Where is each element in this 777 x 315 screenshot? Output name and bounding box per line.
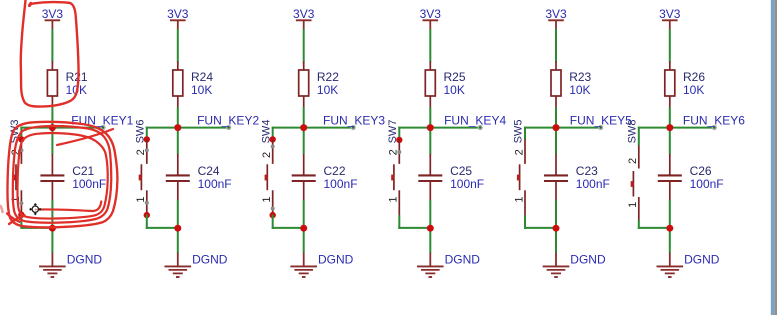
svg-text:100nF: 100nF	[72, 177, 106, 191]
net label FUN_KEY6 stub	[670, 127, 715, 129]
ground symbol DGND column 6	[657, 253, 720, 277]
wire R23 to node FUN_KEY5	[555, 107, 557, 154]
svg-text:SW6: SW6	[135, 120, 147, 144]
resistor R25 10K	[425, 62, 466, 108]
capacitor C21 100nF	[40, 154, 106, 201]
wire node to switch SW3 pin 2	[20, 127, 52, 129]
resistor R26 10K	[665, 62, 706, 108]
capacitor C25 100nF	[418, 154, 484, 201]
wire C21 to ground	[51, 200, 53, 253]
svg-text:FUN_KEY5: FUN_KEY5	[570, 113, 632, 127]
wire 3V3 to R25	[429, 29, 431, 63]
svg-text:100nF: 100nF	[576, 177, 610, 191]
wire C24 to ground	[177, 200, 179, 253]
svg-text:2: 2	[513, 149, 525, 155]
wire node to switch SW5 pin 2	[524, 127, 556, 129]
svg-text:2: 2	[135, 149, 147, 155]
capacitor C23 100nF	[544, 154, 610, 201]
svg-text:1: 1	[627, 202, 639, 208]
switch SW6	[139, 136, 150, 218]
wire 3V3 to R23	[555, 29, 557, 63]
svg-text:10K: 10K	[569, 83, 590, 97]
capacitor C24 100nF	[166, 154, 232, 201]
switch SW7	[391, 137, 402, 216]
junction node FUN_KEY3	[300, 124, 307, 131]
junction node FUN_KEY4	[427, 124, 434, 131]
svg-text:SW8: SW8	[627, 120, 639, 144]
svg-text:DGND: DGND	[192, 253, 228, 267]
svg-text:C25: C25	[450, 164, 472, 178]
svg-text:DGND: DGND	[445, 253, 481, 267]
wire R21 to node FUN_KEY1	[51, 107, 53, 154]
power port 3V3 column 4	[420, 7, 442, 30]
svg-text:DGND: DGND	[570, 253, 606, 267]
power port 3V3 column 6	[659, 7, 681, 30]
svg-text:100nF: 100nF	[198, 177, 232, 191]
wire 3V3 to R22	[303, 29, 305, 63]
svg-text:2: 2	[627, 158, 639, 164]
wire 3V3 to R21	[51, 29, 53, 63]
svg-text:R22: R22	[317, 70, 339, 84]
svg-text:R21: R21	[66, 70, 88, 84]
annotation scribble loops around SW3 and C21	[1, 122, 118, 227]
wire C22 to ground	[303, 200, 305, 253]
net label FUN_KEY4 stub	[430, 127, 480, 129]
junction ground node column 3	[300, 225, 307, 232]
wire 3V3 to R24	[177, 29, 179, 63]
junction ground node column 6	[666, 225, 673, 232]
wire R25 to node FUN_KEY4	[429, 107, 431, 154]
wire switch SW3 pin 1 to ground node	[20, 214, 22, 229]
junction node FUN_KEY2	[174, 124, 181, 131]
annotation scribble stroke from cursor	[39, 202, 102, 212]
ground symbol DGND column 3	[290, 253, 353, 277]
svg-text:10K: 10K	[191, 83, 212, 97]
annotation scribble loop around 3V3 and R21	[21, 0, 79, 107]
svg-text:C22: C22	[324, 164, 346, 178]
switch SW4	[265, 136, 276, 218]
svg-text:C26: C26	[690, 164, 712, 178]
svg-text:DGND: DGND	[318, 253, 354, 267]
capacitor C26 100nF	[658, 154, 724, 201]
svg-text:1: 1	[135, 196, 147, 202]
svg-text:DGND: DGND	[684, 253, 720, 267]
svg-text:C24: C24	[198, 164, 220, 178]
junction node FUN_KEY1	[49, 124, 56, 131]
svg-text:1: 1	[388, 196, 400, 202]
wire 3V3 to R26	[669, 29, 671, 63]
annotation scribble knot bottom left	[9, 215, 25, 224]
svg-text:FUN_KEY3: FUN_KEY3	[323, 113, 385, 127]
svg-text:3V3: 3V3	[293, 7, 315, 21]
svg-text:FUN_KEY4: FUN_KEY4	[444, 113, 506, 127]
annotation cursor marker	[29, 203, 41, 215]
net label FUN_KEY3 stub	[304, 127, 354, 129]
wire switch SW5 pin 1 to ground node	[524, 215, 526, 229]
junction ground node column 5	[553, 225, 560, 232]
resistor R21 10K	[47, 62, 88, 108]
annotation scribble diagonal stroke	[57, 129, 113, 145]
switch SW8	[631, 145, 639, 220]
svg-text:2: 2	[388, 149, 400, 155]
svg-text:10K: 10K	[444, 83, 465, 97]
wire R26 to node FUN_KEY6	[669, 107, 671, 154]
ground symbol DGND column 2	[165, 253, 228, 277]
junction node FUN_KEY5	[553, 124, 560, 131]
resistor R23 10K	[551, 62, 592, 108]
svg-text:R24: R24	[191, 70, 213, 84]
wire switch SW7 pin 1 to ground node	[398, 215, 400, 229]
wire C25 to ground	[429, 200, 431, 253]
power port 3V3 column 1	[42, 7, 64, 30]
wire node to switch SW4 pin 2	[272, 127, 304, 129]
wire node to switch SW7 pin 2	[398, 127, 430, 129]
junction node FUN_KEY6	[666, 124, 673, 131]
svg-text:3V3: 3V3	[545, 7, 567, 21]
junction ground node column 1	[49, 225, 56, 232]
net label FUN_KEY1 stub	[52, 127, 103, 129]
svg-text:3V3: 3V3	[420, 7, 442, 21]
svg-text:3V3: 3V3	[42, 7, 64, 21]
svg-text:100nF: 100nF	[324, 177, 358, 191]
wire switch SW8 pin 1 to ground node	[638, 220, 640, 229]
ground symbol DGND column 4	[417, 253, 480, 277]
ground symbol DGND column 1	[39, 253, 102, 277]
wire C23 to ground	[555, 200, 557, 253]
power port 3V3 column 3	[293, 7, 315, 30]
net label FUN_KEY5 stub	[556, 127, 601, 129]
resistor R22 10K	[299, 62, 340, 108]
power port 3V3 column 2	[167, 7, 189, 30]
svg-text:10K: 10K	[317, 83, 338, 97]
svg-text:DGND: DGND	[67, 253, 103, 267]
resistor R24 10K	[173, 62, 214, 108]
svg-text:1: 1	[513, 196, 525, 202]
switch SW5	[517, 139, 525, 216]
window edge scrollbar right	[771, 0, 774, 315]
svg-text:3V3: 3V3	[167, 7, 189, 21]
svg-text:100nF: 100nF	[450, 177, 484, 191]
svg-text:R26: R26	[683, 70, 705, 84]
svg-text:1: 1	[261, 196, 273, 202]
wire switch SW6 pin 1 to ground node	[146, 215, 148, 229]
svg-text:FUN_KEY6: FUN_KEY6	[683, 113, 745, 127]
svg-text:1: 1	[10, 196, 22, 202]
wire switch SW4 pin 1 to ground node	[272, 215, 274, 229]
svg-text:10K: 10K	[683, 83, 704, 97]
wire node to switch SW8 pin 2	[638, 127, 670, 129]
wire R22 to node FUN_KEY3	[303, 107, 305, 154]
svg-text:FUN_KEY2: FUN_KEY2	[197, 113, 259, 127]
svg-text:SW4: SW4	[260, 120, 272, 144]
ground symbol DGND column 5	[543, 253, 606, 277]
svg-text:2: 2	[261, 152, 273, 158]
wire node to switch SW6 pin 2	[146, 127, 178, 129]
switch SW3	[13, 136, 24, 218]
wire C26 to ground	[669, 200, 671, 253]
junction ground node column 4	[427, 225, 434, 232]
svg-text:C21: C21	[72, 164, 94, 178]
svg-text:SW5: SW5	[513, 120, 525, 144]
net label FUN_KEY2 stub	[178, 127, 229, 129]
wire R24 to node FUN_KEY2	[177, 107, 179, 154]
svg-text:FUN_KEY1: FUN_KEY1	[71, 113, 133, 127]
svg-text:C23: C23	[576, 164, 598, 178]
svg-text:R25: R25	[444, 70, 466, 84]
capacitor C22 100nF	[292, 154, 358, 201]
svg-text:100nF: 100nF	[690, 177, 724, 191]
power port 3V3 column 5	[545, 7, 567, 30]
svg-text:3V3: 3V3	[659, 7, 681, 21]
svg-text:R23: R23	[569, 70, 591, 84]
junction ground node column 2	[174, 225, 181, 232]
svg-text:SW7: SW7	[387, 120, 399, 144]
